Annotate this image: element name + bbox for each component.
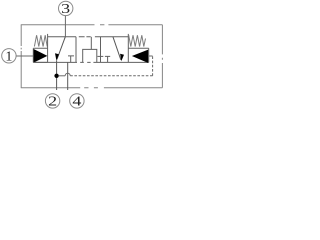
port 1 wire	[16, 55, 33, 57]
port 2 circle label	[45, 94, 59, 110]
blocked port T on right divider	[98, 55, 104, 57]
left position flow arrowhead	[55, 53, 59, 60]
pilot actuator left box	[33, 48, 47, 62]
junction dot	[54, 74, 58, 78]
port 4 wire	[67, 62, 69, 90]
pilot line dashed vertical	[152, 56, 154, 76]
enclosure boundary (dash-dot rectangle)	[21, 25, 163, 88]
transition top port stub into bridge	[90, 37, 92, 50]
left position blocked port T	[68, 56, 74, 63]
pilot actuator right filled triangle	[132, 50, 148, 63]
divider between left square and transition	[75, 37, 77, 63]
port 3 circle label	[58, 1, 72, 17]
spring right	[129, 35, 146, 46]
valve body bottom edge (solid / dashed transition / solid)	[33, 61, 148, 63]
port 4 circle label	[70, 94, 84, 110]
svg-text:3: 3	[61, 2, 70, 17]
right position flow arrowhead	[120, 54, 124, 61]
svg-text:1: 1	[5, 50, 12, 65]
right position blocked port T	[105, 56, 110, 62]
pilot line stub to actuator box	[149, 55, 153, 57]
divider between transition and right square	[100, 37, 102, 63]
valve body outer verticals with wall extensions	[48, 34, 129, 63]
transition bridge (n-shape connecting bottom ports)	[83, 49, 97, 62]
port 1 circle label	[2, 49, 16, 65]
pilot actuator right box	[128, 48, 148, 62]
right position flow arrow line	[113, 37, 121, 60]
left position flow arrow line	[57, 37, 65, 60]
port 2 wire	[56, 60, 58, 90]
valve body top edge (solid / dashed transition / solid)	[48, 36, 129, 38]
spring left	[34, 35, 47, 46]
pilot line dashed horizontal	[70, 75, 152, 77]
pilot line solid stub from dot	[59, 75, 65, 77]
svg-text:4: 4	[72, 95, 81, 109]
crossover hop over port 4 wire	[65, 73, 70, 76]
port 3 wire	[64, 16, 66, 37]
pilot actuator left filled triangle	[34, 49, 48, 63]
svg-text:2: 2	[48, 95, 57, 109]
